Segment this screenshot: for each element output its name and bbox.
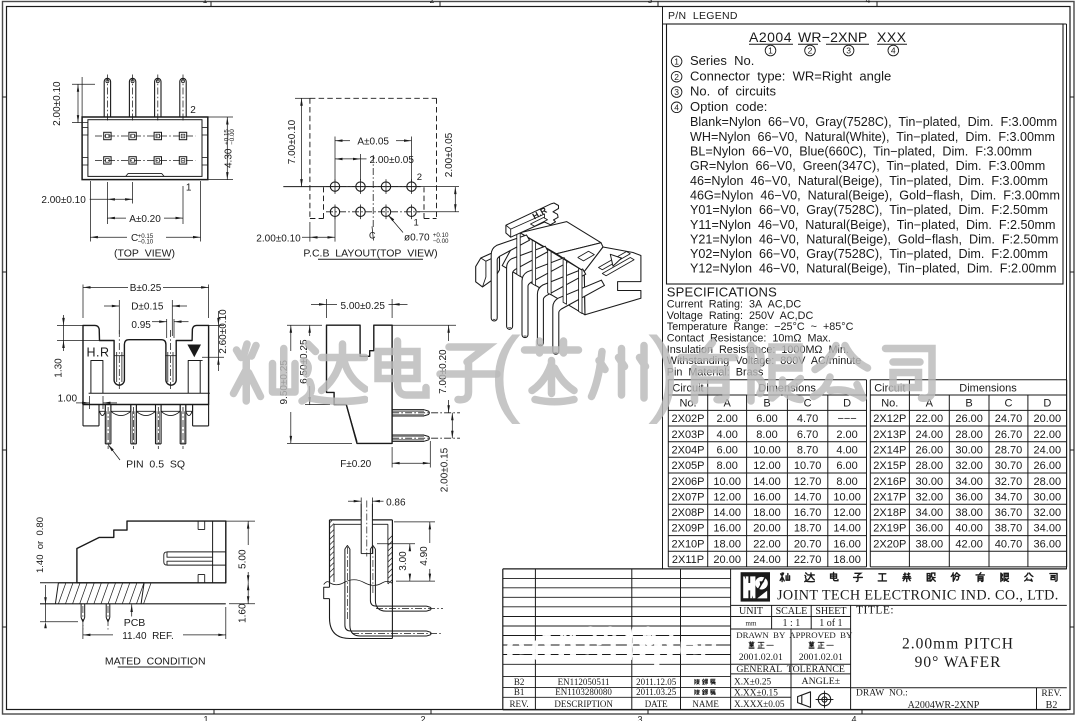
svg-text:0.86: 0.86 bbox=[386, 498, 406, 509]
dim 5.00±0.25 (side top) bbox=[326, 299, 328, 318]
dim A±0.20 (top view) bbox=[107, 217, 126, 219]
title block grid bbox=[731, 604, 1067, 606]
svg-text:2.00±0.10: 2.00±0.10 bbox=[41, 195, 86, 206]
svg-text:8.00: 8.00 bbox=[756, 429, 777, 441]
dim 1.00 (front left lower) bbox=[89, 396, 91, 409]
dim 4.90 (section) bbox=[394, 521, 435, 523]
3d bent pins bbox=[491, 235, 529, 321]
svg-text:26.00: 26.00 bbox=[916, 445, 944, 457]
svg-text:2X10P: 2X10P bbox=[671, 538, 704, 550]
dim 4.30 (top view right) bbox=[208, 116, 233, 118]
watermark chinese company name bbox=[234, 344, 296, 401]
svg-text:2: 2 bbox=[674, 72, 679, 82]
P/N LEGEND label bbox=[668, 10, 738, 22]
svg-text:−0.00: −0.00 bbox=[229, 129, 236, 145]
svg-text:2011.03.25: 2011.03.25 bbox=[636, 687, 677, 697]
svg-text:6.70: 6.70 bbox=[797, 429, 818, 441]
svg-text:14.00: 14.00 bbox=[753, 476, 781, 488]
svg-text:C: C bbox=[804, 398, 812, 410]
dim 2.00±0.10 pin pitch (top view left) bbox=[72, 83, 95, 85]
dim A±0.05 (pcb) bbox=[334, 137, 336, 183]
svg-text:BL=Nylon 66−V0, Blue(660C),: BL=Nylon 66−V0, Blue(660C), Tin−plated, … bbox=[690, 145, 1032, 159]
svg-text:18.00: 18.00 bbox=[833, 554, 861, 566]
svg-text:Series No.: Series No. bbox=[690, 53, 754, 68]
svg-text:Y21=Nylon 46−V0, Natural(Bei: Y21=Nylon 46−V0, Natural(Beige), Gold−fl… bbox=[690, 232, 1059, 246]
svg-text:DATE: DATE bbox=[645, 699, 668, 709]
svg-text:2X20P: 2X20P bbox=[873, 538, 906, 550]
svg-text:EN1103280080: EN1103280080 bbox=[555, 687, 612, 697]
svg-text:C: C bbox=[369, 231, 376, 241]
svg-text:Option code:: Option code: bbox=[690, 99, 767, 114]
svg-text:A±0.05: A±0.05 bbox=[357, 137, 389, 148]
svg-text:bfep: bfep bbox=[645, 626, 720, 659]
svg-text:30.00: 30.00 bbox=[955, 445, 983, 457]
dim 3.00 (section) bbox=[377, 543, 415, 545]
svg-text:2: 2 bbox=[808, 46, 813, 56]
svg-text:12.00: 12.00 bbox=[713, 491, 741, 503]
svg-text:NAME: NAME bbox=[692, 699, 719, 709]
right column divider bbox=[663, 7, 1067, 569]
circled digits under heading bbox=[765, 45, 776, 56]
svg-text:16.00: 16.00 bbox=[713, 523, 741, 535]
dim ø0.70 hole (pcb) bbox=[388, 215, 403, 233]
mated condition connector bbox=[77, 521, 226, 583]
svg-text:DESCRIPTION: DESCRIPTION bbox=[554, 699, 613, 709]
dim 1.40 or 0.80 (mated) bbox=[44, 603, 54, 605]
svg-text:5.00: 5.00 bbox=[237, 549, 248, 569]
svg-text:2X14P: 2X14P bbox=[873, 445, 906, 457]
svg-text:−0.10: −0.10 bbox=[138, 239, 154, 246]
svg-text:2X07P: 2X07P bbox=[671, 491, 704, 503]
svg-text:6.00: 6.00 bbox=[716, 445, 737, 457]
svg-text:28.00: 28.00 bbox=[916, 460, 944, 472]
svg-text:2X19P: 2X19P bbox=[873, 523, 906, 535]
svg-text:30.70: 30.70 bbox=[995, 460, 1023, 472]
svg-text:12.00: 12.00 bbox=[833, 507, 861, 519]
svg-text:4.00: 4.00 bbox=[716, 429, 737, 441]
svg-text:40.00: 40.00 bbox=[955, 523, 983, 535]
company chinese name bbox=[780, 573, 789, 582]
svg-text:28.00: 28.00 bbox=[1034, 476, 1062, 488]
svg-text:32.70: 32.70 bbox=[995, 476, 1023, 488]
svg-text:2.00±0.10: 2.00±0.10 bbox=[256, 233, 301, 244]
svg-text:): ) bbox=[648, 318, 680, 425]
svg-text:−−−: −−− bbox=[837, 413, 856, 425]
svg-text:EN112050511: EN112050511 bbox=[558, 677, 610, 687]
svg-text:1.60: 1.60 bbox=[237, 603, 248, 623]
svg-text:X.X±0.25: X.X±0.25 bbox=[734, 678, 771, 688]
svg-text:4.90: 4.90 bbox=[419, 546, 430, 566]
svg-text:2X13P: 2X13P bbox=[873, 429, 906, 441]
svg-text:2X17P: 2X17P bbox=[873, 491, 906, 503]
svg-text:1: 1 bbox=[203, 0, 208, 5]
svg-text:4: 4 bbox=[866, 0, 871, 5]
svg-text:4.00: 4.00 bbox=[836, 445, 857, 457]
dim 7.00±0.10 (pcb left) bbox=[295, 97, 310, 99]
svg-text:Blank=Nylon 66−V0, Gray(7528: Blank=Nylon 66−V0, Gray(7528C), Tin−plat… bbox=[690, 115, 1057, 129]
dim 11.40 REF (mated) bbox=[82, 625, 84, 639]
3d slot face bbox=[502, 233, 585, 315]
svg-text:SCALE: SCALE bbox=[776, 606, 808, 617]
svg-text:4: 4 bbox=[851, 715, 856, 722]
svg-text:28.00: 28.00 bbox=[955, 429, 983, 441]
svg-text:2X11P: 2X11P bbox=[672, 554, 704, 566]
svg-text:30.00: 30.00 bbox=[1034, 491, 1062, 503]
svg-text:32.00: 32.00 bbox=[955, 460, 983, 472]
dim 7.00±0.20 (side right) bbox=[392, 324, 456, 326]
svg-text:APPROVED BY: APPROVED BY bbox=[789, 630, 853, 640]
svg-text:34.00: 34.00 bbox=[955, 476, 983, 488]
svg-text:4.30: 4.30 bbox=[224, 148, 235, 168]
svg-text:42.00: 42.00 bbox=[955, 538, 983, 550]
svg-text:32.00: 32.00 bbox=[1034, 507, 1062, 519]
svg-text:F±0.20: F±0.20 bbox=[340, 459, 371, 470]
svg-text:No.: No. bbox=[881, 398, 898, 410]
svg-text:2001.02.01: 2001.02.01 bbox=[739, 652, 783, 663]
svg-text:XXX: XXX bbox=[877, 29, 907, 45]
svg-text:D±0.15: D±0.15 bbox=[131, 302, 164, 313]
svg-text:28.70: 28.70 bbox=[995, 445, 1023, 457]
svg-text:11.40 REF.: 11.40 REF. bbox=[122, 631, 174, 642]
svg-text:2: 2 bbox=[190, 105, 196, 116]
svg-text:B1: B1 bbox=[514, 687, 525, 697]
svg-text:22.00: 22.00 bbox=[916, 413, 944, 425]
svg-text:40.70: 40.70 bbox=[995, 538, 1023, 550]
svg-text:2X09P: 2X09P bbox=[671, 523, 704, 535]
pin 0.5 sq label bbox=[108, 445, 120, 461]
svg-text:P/N LEGEND: P/N LEGEND bbox=[668, 10, 738, 22]
svg-text:ø0.70: ø0.70 bbox=[404, 232, 430, 243]
svg-text:ANGLE±: ANGLE± bbox=[802, 676, 841, 687]
svg-text:−0.00: −0.00 bbox=[433, 238, 449, 245]
svg-text:2X04P: 2X04P bbox=[671, 445, 704, 457]
svg-text:2: 2 bbox=[430, 0, 435, 5]
svg-text:2X08P: 2X08P bbox=[671, 507, 704, 519]
svg-text:1: 1 bbox=[414, 218, 419, 229]
svg-text:36.00: 36.00 bbox=[916, 523, 944, 535]
svg-text:1 of 1: 1 of 1 bbox=[819, 618, 842, 629]
svg-text:26.00: 26.00 bbox=[1034, 460, 1062, 472]
svg-text:Connector type: WR=Right an: Connector type: WR=Right angle bbox=[690, 68, 891, 83]
svg-text:3: 3 bbox=[637, 715, 642, 722]
svg-text:2: 2 bbox=[420, 715, 425, 722]
svg-text:UNIT: UNIT bbox=[739, 606, 763, 617]
svg-text:GENERAL TOLERANCE: GENERAL TOLERANCE bbox=[736, 664, 845, 675]
svg-text:MATED CONDITION: MATED CONDITION bbox=[105, 655, 206, 667]
svg-text:8.70: 8.70 bbox=[797, 445, 818, 457]
svg-text:36.70: 36.70 bbox=[995, 507, 1023, 519]
svg-text:14.00: 14.00 bbox=[833, 523, 861, 535]
svg-text:10.00: 10.00 bbox=[713, 476, 741, 488]
svg-text:38.70: 38.70 bbox=[995, 523, 1023, 535]
svg-text:3: 3 bbox=[846, 46, 851, 56]
3d slot walls bbox=[517, 231, 520, 277]
svg-text:P.C.B LAYOUT(TOP VIEW): P.C.B LAYOUT(TOP VIEW) bbox=[303, 248, 437, 260]
dim D±0.15 (front) bbox=[118, 300, 120, 334]
dim B±0.25 (front) bbox=[82, 285, 84, 319]
3d bevel face bbox=[557, 243, 604, 272]
dim 6.50±0.25 (side) bbox=[305, 404, 330, 406]
pcb layout holes bbox=[310, 97, 437, 99]
svg-text:1 : 1: 1 : 1 bbox=[783, 618, 801, 629]
svg-text:6.00: 6.00 bbox=[836, 460, 857, 472]
company english name bbox=[777, 588, 1059, 604]
svg-text:2.00±0.15: 2.00±0.15 bbox=[439, 447, 450, 492]
dim F±0.20 (side) bbox=[391, 447, 393, 468]
svg-text:B2: B2 bbox=[1046, 700, 1058, 711]
svg-text:1: 1 bbox=[768, 46, 773, 56]
svg-text:2.00±0.05: 2.00±0.05 bbox=[370, 155, 415, 166]
svg-text:34.00: 34.00 bbox=[916, 507, 944, 519]
svg-text:B±0.25: B±0.25 bbox=[130, 283, 162, 294]
svg-text:2.60±0.10: 2.60±0.10 bbox=[218, 309, 229, 354]
svg-text:2X03P: 2X03P bbox=[671, 429, 704, 441]
svg-text:14.70: 14.70 bbox=[794, 491, 822, 503]
3d left wing block bbox=[476, 252, 500, 287]
svg-text:Y02=Nylon 66−V0, Gray(7528C): Y02=Nylon 66−V0, Gray(7528C), Tin−plated… bbox=[690, 247, 1048, 261]
svg-text:46=Nylon 46−V0, Natural(Beig: 46=Nylon 46−V0, Natural(Beige), Tin−plat… bbox=[690, 174, 1048, 188]
svg-text:D: D bbox=[843, 398, 851, 410]
svg-text:16.00: 16.00 bbox=[753, 491, 781, 503]
svg-text:X.XXX±0.05: X.XXX±0.05 bbox=[734, 700, 785, 710]
svg-text:WH=Nylon 66−V0, Natural(Whit: WH=Nylon 66−V0, Natural(White), Tin−plat… bbox=[690, 130, 1055, 144]
svg-text:1: 1 bbox=[186, 183, 192, 194]
svg-text:30.00: 30.00 bbox=[916, 476, 944, 488]
svg-text:X.XX±0.15: X.XX±0.15 bbox=[734, 688, 778, 698]
svg-text:24.00: 24.00 bbox=[753, 554, 781, 566]
svg-text:2X16P: 2X16P bbox=[873, 476, 906, 488]
svg-text:20.00: 20.00 bbox=[713, 554, 741, 566]
svg-text:7.00±0.10: 7.00±0.10 bbox=[287, 119, 298, 164]
3d roof bbox=[520, 222, 601, 254]
top view body bbox=[82, 117, 208, 180]
svg-text:10.00: 10.00 bbox=[753, 445, 781, 457]
svg-text:24.00: 24.00 bbox=[916, 429, 944, 441]
svg-text:3: 3 bbox=[648, 0, 653, 5]
svg-text:Y01=Nylon 66−V0, Gray(7528C): Y01=Nylon 66−V0, Gray(7528C), Tin−plated… bbox=[690, 203, 1048, 217]
svg-text:12.70: 12.70 bbox=[794, 476, 822, 488]
svg-text:6.00: 6.00 bbox=[756, 413, 777, 425]
mated pins through pcb bbox=[80, 604, 82, 618]
svg-text:4: 4 bbox=[891, 46, 896, 56]
svg-text:JOINT TECH ELECTRONIC IND. CO.: JOINT TECH ELECTRONIC IND. CO., LTD. bbox=[777, 588, 1059, 604]
svg-text:16.00: 16.00 bbox=[833, 538, 861, 550]
svg-text:Dimensions: Dimensions bbox=[959, 382, 1017, 394]
svg-text:2.00±0.05: 2.00±0.05 bbox=[444, 132, 455, 177]
svg-text:(TOP VIEW): (TOP VIEW) bbox=[114, 248, 175, 260]
svg-text:1: 1 bbox=[203, 715, 208, 722]
signatures bbox=[749, 642, 754, 649]
svg-text:4.70: 4.70 bbox=[797, 413, 818, 425]
svg-text:No. of circuits: No. of circuits bbox=[690, 84, 776, 99]
svg-text:0.95: 0.95 bbox=[131, 320, 151, 331]
dim 5.00 (mated right) bbox=[226, 520, 255, 522]
svg-text:22.00: 22.00 bbox=[1034, 429, 1062, 441]
company logo bbox=[741, 572, 770, 601]
svg-text:A2004: A2004 bbox=[749, 29, 792, 45]
svg-text:14.00: 14.00 bbox=[713, 507, 741, 519]
dim C (top view) bbox=[89, 181, 91, 242]
svg-text:2001.02.01: 2001.02.01 bbox=[799, 652, 843, 663]
svg-text:10.00: 10.00 bbox=[833, 491, 861, 503]
svg-text:2X12P: 2X12P bbox=[873, 413, 906, 425]
dim 1.30 (front left) bbox=[57, 324, 83, 326]
svg-text:1.00: 1.00 bbox=[58, 394, 78, 405]
svg-text:36.00: 36.00 bbox=[1034, 538, 1062, 550]
svg-text:90° WAFER: 90° WAFER bbox=[915, 654, 1002, 671]
svg-text:38.00: 38.00 bbox=[916, 538, 944, 550]
svg-text:46G=Nylon 46−V0, Natural(Bei: 46G=Nylon 46−V0, Natural(Beige), Gold−fl… bbox=[690, 188, 1060, 202]
svg-text:16.70: 16.70 bbox=[794, 507, 822, 519]
svg-text:24.70: 24.70 bbox=[995, 413, 1023, 425]
legend items bbox=[671, 56, 682, 67]
svg-text:1.40 or 0.80: 1.40 or 0.80 bbox=[35, 517, 46, 573]
svg-text:B2: B2 bbox=[514, 677, 525, 687]
svg-text:Voltage Rating: 250V AC,DC: Voltage Rating: 250V AC,DC bbox=[667, 310, 814, 322]
svg-text:GR=Nylon 66−V0, Green(347C),: GR=Nylon 66−V0, Green(347C), Tin−plated,… bbox=[690, 159, 1045, 173]
svg-text:1.30: 1.30 bbox=[53, 358, 64, 378]
svg-text:12.00: 12.00 bbox=[753, 460, 781, 472]
centerline symbol bbox=[372, 227, 374, 241]
svg-text:2X18P: 2X18P bbox=[873, 507, 906, 519]
svg-text:(: ( bbox=[489, 318, 521, 425]
svg-text:Y12=Nylon 46−V0, Natural(Bei: Y12=Nylon 46−V0, Natural(Beige), Tin−pla… bbox=[690, 262, 1056, 276]
svg-text:20.70: 20.70 bbox=[794, 538, 822, 550]
svg-text:TITLE:: TITLE: bbox=[856, 605, 894, 617]
revision table grid bbox=[503, 568, 1067, 570]
svg-text:22.70: 22.70 bbox=[794, 554, 822, 566]
svg-text:8.00: 8.00 bbox=[836, 476, 857, 488]
svg-text:2.00mm PITCH: 2.00mm PITCH bbox=[902, 636, 1014, 653]
svg-text:PIN 0.5 SQ: PIN 0.5 SQ bbox=[126, 459, 185, 471]
svg-text:22.00: 22.00 bbox=[753, 538, 781, 550]
svg-text:C: C bbox=[1005, 398, 1013, 410]
svg-text:26.70: 26.70 bbox=[995, 429, 1023, 441]
svg-text:Current Rating: 3A AC,DC: Current Rating: 3A AC,DC bbox=[667, 299, 802, 311]
3d right end block bbox=[584, 247, 641, 315]
svg-text:REV.: REV. bbox=[510, 699, 529, 709]
svg-text:A2004WR-2XNP: A2004WR-2XNP bbox=[908, 700, 980, 711]
svg-text:1: 1 bbox=[674, 57, 679, 67]
dim 2.00±0.10 (pcb bottom) bbox=[334, 216, 336, 242]
svg-text:2: 2 bbox=[417, 172, 422, 183]
svg-text:20.00: 20.00 bbox=[753, 523, 781, 535]
svg-text:2X05P: 2X05P bbox=[671, 460, 704, 472]
svg-text:H.R: H.R bbox=[87, 346, 110, 360]
svg-text:38.00: 38.00 bbox=[955, 507, 983, 519]
svg-text:18.00: 18.00 bbox=[713, 538, 741, 550]
svg-text:10.70: 10.70 bbox=[794, 460, 822, 472]
svg-text:18.00: 18.00 bbox=[753, 507, 781, 519]
dim 0.95 (front) bbox=[166, 319, 168, 338]
legend box bbox=[667, 24, 1064, 284]
svg-text:Y11=Nylon 46−V0, Natural(Bei: Y11=Nylon 46−V0, Natural(Beige), Tin−pla… bbox=[690, 218, 1056, 232]
dim 0.86 (section) bbox=[360, 498, 362, 518]
dim 2.00±0.05 vertical (pcb right) bbox=[417, 186, 459, 188]
svg-text:26.00: 26.00 bbox=[955, 413, 983, 425]
svg-text:2.00: 2.00 bbox=[836, 429, 857, 441]
svg-text:2.00±0.10: 2.00±0.10 bbox=[52, 81, 63, 126]
svg-text:36.00: 36.00 bbox=[955, 491, 983, 503]
side view body bbox=[327, 325, 393, 443]
svg-text:REV.: REV. bbox=[1041, 689, 1061, 699]
dim 2.00±0.10 (top view bottom) bbox=[106, 182, 108, 224]
svg-text:SHEET: SHEET bbox=[815, 606, 846, 617]
svg-text:DRAW NO.:: DRAW NO.: bbox=[856, 689, 908, 699]
svg-text:A±0.20: A±0.20 bbox=[129, 214, 161, 225]
svg-text:3.00: 3.00 bbox=[398, 551, 409, 571]
svg-text:20.00: 20.00 bbox=[1034, 413, 1062, 425]
dimension table left bbox=[667, 380, 669, 567]
svg-text:mm: mm bbox=[746, 620, 757, 628]
svg-text:Temperature Range: −25°C ~: Temperature Range: −25°C ~ +85°C bbox=[667, 321, 854, 333]
svg-text:2011.12.05: 2011.12.05 bbox=[636, 677, 677, 687]
svg-text:B: B bbox=[965, 398, 972, 410]
svg-text:D: D bbox=[1043, 398, 1051, 410]
3d polarity triangle bbox=[610, 254, 621, 266]
svg-text:2X15P: 2X15P bbox=[873, 460, 906, 472]
projection angle symbols bbox=[798, 692, 811, 708]
svg-text:PCB: PCB bbox=[124, 617, 146, 629]
svg-text:WR−2XNP: WR−2XNP bbox=[798, 29, 867, 45]
svg-text:3: 3 bbox=[674, 87, 679, 97]
dim 2.60±0.10 (front right) bbox=[209, 324, 224, 326]
front view body bbox=[83, 325, 209, 404]
dim 1.60 (mated right) bbox=[229, 603, 255, 605]
pcb board hatched bbox=[40, 582, 77, 584]
svg-text:24.00: 24.00 bbox=[1034, 445, 1062, 457]
3d top flange bbox=[506, 203, 559, 237]
dim 9.50±0.25 (side) bbox=[287, 324, 322, 326]
svg-text:DRAWN BY: DRAWN BY bbox=[736, 630, 786, 640]
svg-text:5.00±0.25: 5.00±0.25 bbox=[340, 301, 385, 312]
svg-text:34.70: 34.70 bbox=[995, 491, 1023, 503]
svg-text:32.00: 32.00 bbox=[916, 491, 944, 503]
svg-text:4: 4 bbox=[674, 102, 679, 112]
dimension table right bbox=[869, 380, 871, 567]
svg-text:18.70: 18.70 bbox=[794, 523, 822, 535]
dim 2.00±0.15 (side right) bbox=[448, 399, 450, 413]
section view body bbox=[329, 520, 331, 582]
svg-text:SPECIFICATIONS: SPECIFICATIONS bbox=[667, 285, 777, 300]
svg-text:2X06P: 2X06P bbox=[671, 476, 704, 488]
svg-text:34.00: 34.00 bbox=[1034, 523, 1062, 535]
svg-text:8.00: 8.00 bbox=[716, 460, 737, 472]
svg-text:2.00: 2.00 bbox=[716, 413, 737, 425]
dim 2.00±0.05 (pcb) bbox=[360, 154, 362, 180]
